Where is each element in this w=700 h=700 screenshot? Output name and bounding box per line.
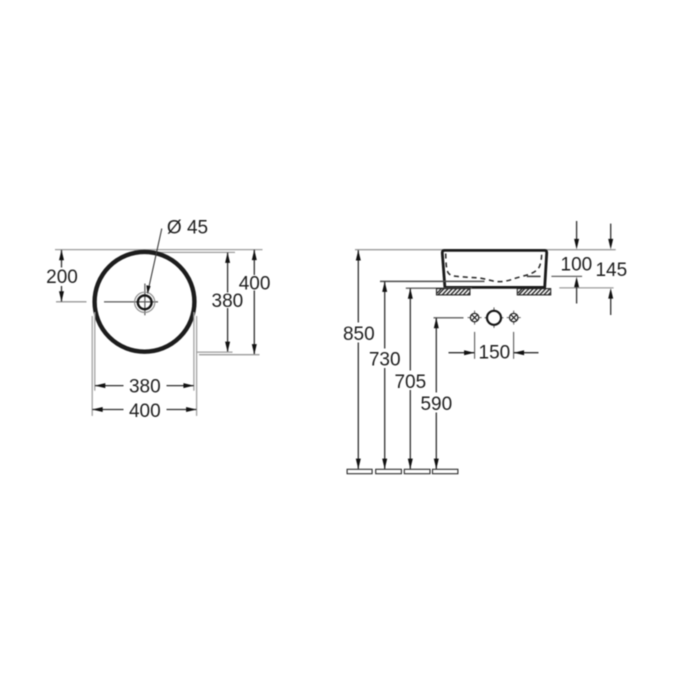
label 400 horizontal bbox=[129, 401, 161, 422]
svg-text:400: 400 bbox=[129, 401, 161, 422]
svg-text:705: 705 bbox=[394, 372, 426, 393]
drain hole circle bbox=[138, 295, 152, 309]
label 705 bbox=[394, 372, 426, 393]
dimension 380 vertical bbox=[225, 252, 230, 352]
counter hatch right bbox=[517, 289, 550, 295]
counter hatch left bbox=[437, 289, 470, 295]
fixing hole right bbox=[507, 311, 521, 325]
dimension 150 bbox=[449, 350, 539, 355]
extension line 150 right bbox=[513, 332, 515, 359]
svg-text:145: 145 bbox=[595, 260, 627, 281]
label 145 bbox=[595, 260, 627, 281]
svg-text:730: 730 bbox=[369, 350, 401, 371]
svg-text:100: 100 bbox=[561, 254, 593, 275]
label 850 bbox=[343, 324, 375, 345]
svg-text:400: 400 bbox=[239, 273, 271, 294]
extension line right outer (400 width) bbox=[196, 316, 198, 416]
label diameter 45 bbox=[167, 218, 208, 239]
faucet hole center bbox=[485, 307, 504, 328]
svg-text:Ø 45: Ø 45 bbox=[167, 218, 208, 239]
floor strip 1 bbox=[347, 469, 372, 473]
dimension 730 bbox=[382, 281, 387, 469]
dimension 400 horizontal bbox=[92, 407, 196, 412]
label 730 bbox=[369, 350, 401, 371]
label 400 vertical bbox=[239, 273, 271, 294]
dimension 705 bbox=[408, 288, 413, 469]
svg-text:200: 200 bbox=[46, 267, 78, 288]
dimension 380 horizontal bbox=[95, 383, 194, 388]
horizontal centerline left segment bbox=[56, 301, 87, 303]
dimension 200 vertical bbox=[59, 250, 64, 302]
label 100 bbox=[561, 254, 593, 275]
floor strip 2 bbox=[376, 469, 402, 473]
dimension 590 bbox=[434, 318, 439, 469]
extension line 100 level inner segment bbox=[527, 275, 541, 277]
dimension 100 bbox=[574, 221, 579, 304]
dimension 400 vertical bbox=[252, 250, 257, 355]
top tangent extension line (inner, 380) bbox=[152, 251, 235, 253]
svg-text:850: 850 bbox=[343, 324, 375, 345]
svg-text:380: 380 bbox=[129, 376, 161, 397]
extension line right inner (380 width) bbox=[193, 312, 195, 391]
leader line for diameter 45 bbox=[146, 229, 162, 295]
top extension line (basin top level) bbox=[355, 249, 616, 251]
extension line 705 level bbox=[406, 287, 472, 289]
label 200 bbox=[46, 267, 78, 288]
floor strip 4 bbox=[433, 469, 458, 473]
counter level extension right (145) bbox=[559, 287, 613, 289]
extension line 100 level right segment bbox=[551, 275, 582, 277]
label 380 vertical bbox=[212, 291, 244, 312]
basin side outline bbox=[442, 250, 546, 287]
svg-text:590: 590 bbox=[420, 394, 452, 415]
dimension 850 bbox=[356, 250, 361, 469]
horizontal centerline inner segment bbox=[104, 301, 158, 303]
extension line 150 left bbox=[474, 332, 476, 359]
label 380 horizontal bbox=[129, 376, 161, 397]
bottom tangent extension line (inner, 380) bbox=[196, 351, 233, 353]
drain vertical centerline bbox=[144, 284, 146, 316]
basin rim circle bbox=[95, 252, 195, 352]
drain outer circle bbox=[135, 292, 155, 312]
bottom tangent extension line (outer, 400) bbox=[199, 354, 260, 356]
dimension 145 bbox=[608, 224, 613, 315]
top tangent extension line (outer, 400) bbox=[55, 249, 263, 251]
basin interior dashed contour bbox=[446, 254, 542, 282]
faucet hole extension line (590 level) bbox=[434, 317, 464, 319]
fixing hole left bbox=[468, 311, 482, 325]
label 150 bbox=[479, 342, 511, 363]
svg-text:150: 150 bbox=[479, 342, 511, 363]
floor strip 3 bbox=[404, 469, 430, 473]
extension line left inner (380 width) bbox=[94, 312, 96, 391]
extension line 730 level (bowl bottom) bbox=[380, 280, 485, 282]
extension line left outer (400 width) bbox=[91, 316, 93, 416]
label 590 bbox=[420, 394, 452, 415]
